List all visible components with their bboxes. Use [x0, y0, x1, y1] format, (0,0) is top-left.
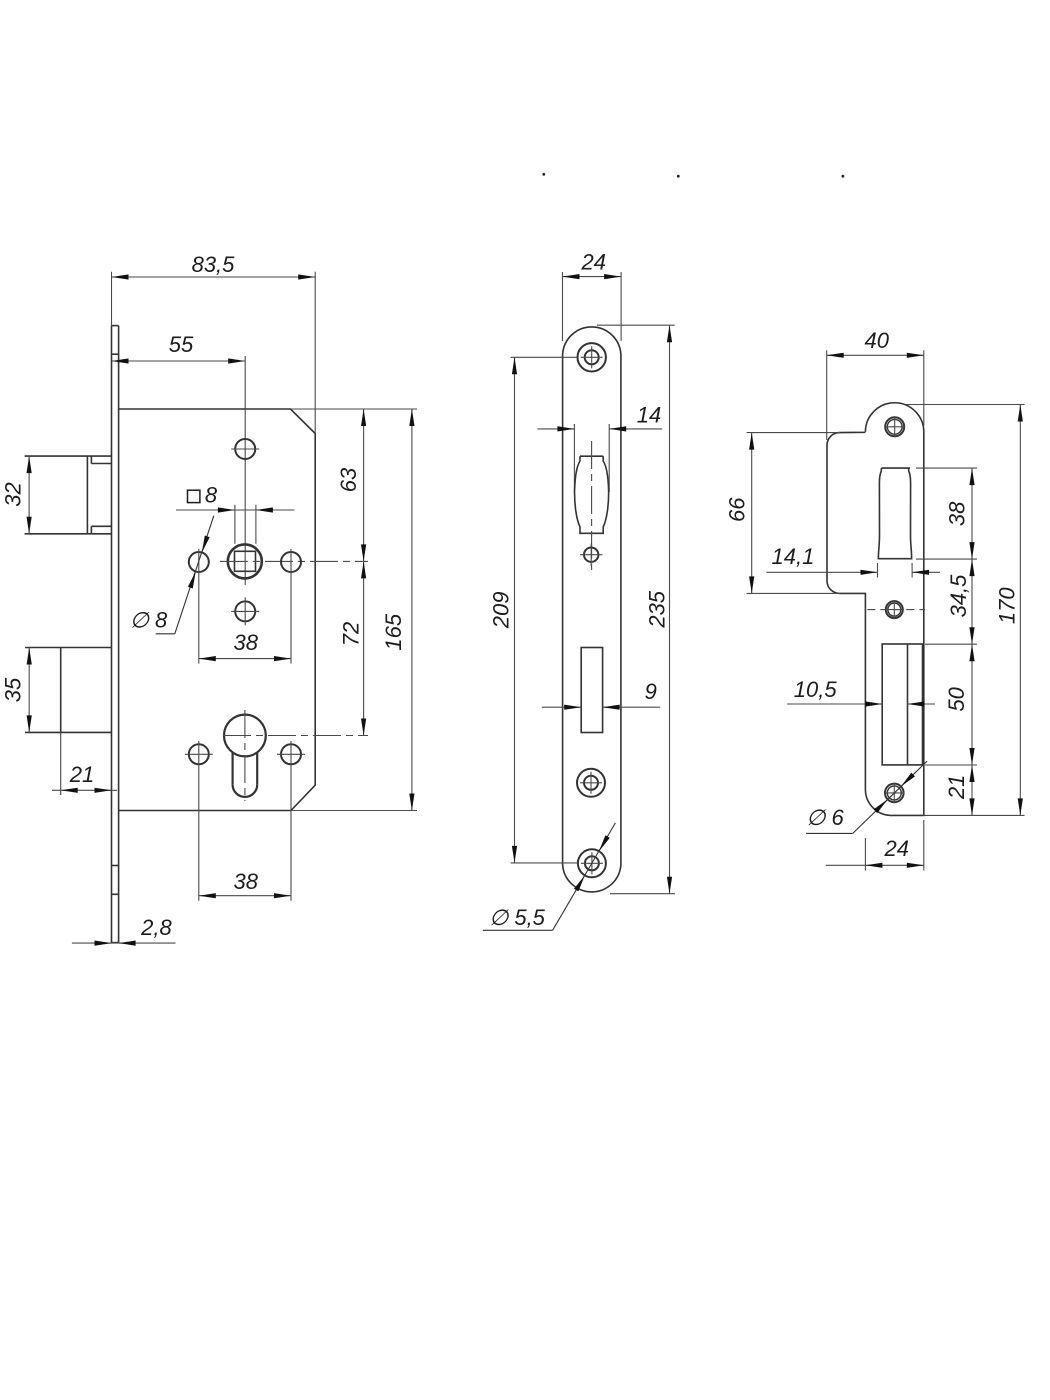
svg-text:21: 21: [944, 775, 969, 800]
svg-text:38: 38: [233, 869, 258, 894]
svg-text:∅ 6: ∅ 6: [806, 805, 844, 830]
svg-text:8: 8: [205, 482, 218, 507]
svg-text:165: 165: [381, 613, 406, 650]
svg-text:32: 32: [0, 482, 25, 506]
svg-text:∅ 8: ∅ 8: [130, 607, 168, 632]
svg-text:34,5: 34,5: [946, 574, 971, 618]
svg-text:40: 40: [864, 328, 889, 353]
svg-text:63: 63: [336, 467, 361, 492]
svg-text:∅ 5,5: ∅ 5,5: [489, 905, 546, 930]
svg-text:38: 38: [233, 630, 258, 655]
svg-text:24: 24: [580, 250, 605, 275]
svg-text:9: 9: [645, 679, 657, 704]
svg-text:24: 24: [883, 836, 908, 861]
svg-text:209: 209: [488, 592, 513, 630]
svg-text:235: 235: [644, 590, 669, 628]
svg-text:2,8: 2,8: [140, 915, 172, 940]
svg-text:14,1: 14,1: [771, 544, 814, 569]
svg-text:72: 72: [338, 622, 363, 646]
svg-text:21: 21: [69, 762, 94, 787]
svg-text:55: 55: [169, 332, 194, 357]
svg-text:38: 38: [945, 501, 970, 526]
svg-text:170: 170: [995, 587, 1020, 624]
svg-text:14: 14: [637, 403, 661, 428]
svg-text:50: 50: [944, 686, 969, 711]
svg-text:35: 35: [0, 677, 25, 702]
svg-text:10,5: 10,5: [794, 677, 838, 702]
svg-text:66: 66: [725, 497, 750, 522]
svg-text:83,5: 83,5: [192, 252, 236, 277]
